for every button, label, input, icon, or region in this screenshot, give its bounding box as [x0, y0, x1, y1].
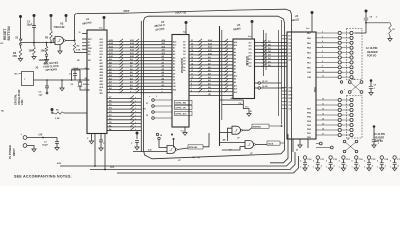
oscillator X3 can box	[22, 72, 34, 86]
capacitor C11 .1 decoupling	[316, 156, 319, 159]
wire companion bus vertical	[140, 21, 142, 152]
header pins CB rows	[316, 143, 319, 145]
svg-text:15: 15	[322, 123, 324, 125]
svg-text:I/O0: I/O0	[249, 66, 252, 68]
svg-text:D2: D2	[173, 80, 175, 82]
svg-text:1: 1	[364, 167, 365, 169]
svg-text:5: 5	[313, 161, 314, 163]
svg-text:Ax: Ax	[183, 66, 185, 69]
wire U7a output to tag	[242, 128, 252, 131]
capacitor at U1 bottom	[100, 134, 102, 141]
header pins port A rows	[316, 32, 338, 34]
power dot VIA Vcc	[311, 11, 314, 14]
VIA left pin stubs lower	[282, 87, 288, 89]
wire battery minus to ground	[27, 146, 34, 150]
wire OE control row	[189, 94, 233, 96]
svg-text:10: 10	[191, 77, 193, 79]
node clock junctions	[46, 79, 48, 81]
svg-text:A14: A14	[173, 40, 176, 43]
svg-text:A8: A8	[234, 78, 236, 81]
svg-text:20: 20	[191, 43, 193, 45]
svg-text:A(0–15): A(0–15)	[192, 156, 200, 159]
svg-text:21: 21	[191, 40, 193, 42]
svg-text:A12: A12	[234, 44, 237, 47]
svg-text:AE: AE	[223, 139, 227, 142]
capacitor C15 .1 decoupling	[367, 156, 370, 159]
svg-text:I/O6: I/O6	[249, 46, 252, 48]
wire SRAM CS line to ground	[222, 104, 244, 106]
svg-text:CAN: CAN	[21, 100, 24, 105]
resistor R2 10K pull-up	[50, 14, 53, 17]
svg-text:A4: A4	[234, 58, 236, 61]
svg-text:100µF: 100µF	[42, 145, 49, 147]
svg-text:17: 17	[191, 53, 193, 55]
svg-text:x: x	[135, 111, 136, 113]
svg-text:BUTTON: BUTTON	[7, 26, 11, 41]
power dot SRAM Vcc	[251, 20, 254, 23]
svg-text:5: 5	[377, 161, 378, 163]
wire U1 xtal1 pin	[87, 68, 90, 70]
svg-text:x: x	[135, 122, 136, 124]
svg-text:9: 9	[191, 80, 192, 82]
svg-text:INPUT: INPUT	[12, 148, 16, 156]
svg-text:Vcc: Vcc	[248, 36, 251, 38]
wire U1 reset pin stub	[82, 42, 87, 44]
svg-text:o: o	[344, 89, 345, 91]
resistor R3 47K	[19, 48, 22, 58]
resistor R1 10K	[33, 43, 35, 47]
svg-text:1: 1	[313, 167, 314, 169]
wire bus A0-A15 rows U1 to EPROM	[107, 41, 172, 43]
svg-text:A10: A10	[234, 88, 237, 91]
svg-text:A13: A13	[162, 42, 165, 45]
wire SRAM A8 line to ground	[220, 99, 244, 101]
svg-text:6: 6	[322, 51, 323, 53]
svg-text:(1) OE: (1) OE	[262, 86, 268, 88]
jumper pads at EPROM control	[152, 99, 155, 102]
wire C8 node to resistor	[366, 22, 390, 24]
svg-text:9: 9	[322, 66, 323, 68]
node junction at D1	[46, 42, 48, 44]
svg-text:x: x	[135, 129, 136, 131]
svg-text:Vcc: Vcc	[306, 28, 309, 30]
svg-text:6: 6	[191, 90, 192, 92]
svg-text:11: 11	[322, 76, 324, 78]
wire bottom bus A0-15	[90, 152, 295, 170]
svg-text:14: 14	[191, 62, 193, 65]
svg-text:FOR I/O: FOR I/O	[367, 55, 376, 58]
svg-text:Ax: Ax	[183, 69, 185, 72]
ground under R1	[32, 57, 36, 60]
svg-text:5: 5	[339, 161, 340, 163]
svg-text:17: 17	[322, 133, 324, 135]
diode D1 1N4148	[46, 43, 48, 47]
svg-text:I/O2: I/O2	[249, 59, 252, 61]
svg-text:D3: D3	[183, 54, 185, 56]
svg-text:13: 13	[191, 67, 193, 69]
wire bottom bus inner	[270, 134, 288, 163]
svg-text:5: 5	[390, 161, 391, 163]
svg-text:74HC132: 74HC132	[54, 25, 66, 29]
power dot top right	[365, 10, 368, 13]
wire battery plus	[27, 137, 57, 139]
svg-text:D4: D4	[183, 50, 185, 53]
svg-text:20MHz: 20MHz	[83, 84, 89, 86]
op-amp U7a nand	[232, 126, 241, 134]
svg-text:AD4: AD4	[100, 71, 104, 74]
svg-text:D1: D1	[183, 61, 185, 63]
capacitor C9 .1	[370, 79, 373, 82]
IC U1 80C320 MCU box	[87, 30, 107, 134]
svg-text:(2) CS: (2) CS	[262, 81, 268, 83]
switch S1 (reset button)	[19, 15, 22, 18]
svg-text:x: x	[135, 101, 136, 103]
svg-text:A1: A1	[162, 81, 164, 84]
svg-text:AD1: AD1	[100, 80, 104, 83]
svg-text:A7: A7	[234, 48, 236, 51]
svg-text:Vss: Vss	[181, 131, 184, 133]
svg-text:1: 1	[326, 167, 327, 169]
net tag CNTRL OE	[175, 105, 193, 109]
net tag CNTRL A14	[175, 111, 193, 115]
svg-text:EPM SEL: EPM SEL	[189, 147, 199, 149]
svg-text:25: 25	[250, 111, 252, 113]
net tag RAMSEL	[252, 124, 269, 128]
svg-text:3: 3	[85, 88, 86, 90]
svg-text:A7: A7	[173, 47, 175, 50]
wire RST top run	[77, 9, 287, 13]
wire pin19 link	[72, 68, 90, 70]
node gate output junction	[74, 40, 76, 42]
svg-text:I/O3: I/O3	[249, 56, 252, 58]
wire port rows U1 lower	[107, 98, 141, 100]
svg-text:OPTIONS: OPTIONS	[45, 67, 57, 72]
svg-text:A15: A15	[100, 38, 103, 41]
svg-text:X1: X1	[88, 42, 90, 44]
svg-text:RST: RST	[124, 9, 130, 13]
svg-text:3.3K: 3.3K	[76, 50, 81, 52]
svg-text:10K: 10K	[41, 50, 46, 53]
svg-text:AD7: AD7	[100, 62, 104, 65]
power dot at U1 Vcc	[103, 16, 106, 19]
svg-text:5: 5	[364, 161, 365, 163]
wire crystal to U1 pin 19	[80, 89, 90, 91]
svg-text:A12: A12	[173, 44, 176, 47]
svg-text:o: o	[149, 96, 150, 98]
svg-text:16(A–X): 16(A–X)	[175, 11, 186, 15]
svg-text:NC: NC	[1, 111, 5, 113]
power dot under box left	[136, 132, 139, 135]
IC U3 EPROM box	[172, 35, 189, 128]
svg-text:U2: U2	[60, 21, 64, 25]
svg-text:A9: A9	[100, 56, 102, 59]
svg-text:1: 1	[377, 167, 378, 169]
ground SRAM Vss corner	[243, 100, 249, 114]
svg-text:10K: 10K	[29, 50, 34, 53]
wire SRAM left bundle verticals	[219, 26, 221, 146]
ground under R3	[18, 59, 22, 62]
jumper pad above U7c	[158, 137, 160, 139]
wire RST corner down to U6 area	[286, 9, 292, 150]
pin stub into U1 xtal2	[84, 79, 87, 81]
svg-text:16: 16	[191, 57, 193, 59]
svg-text:A1: A1	[173, 66, 175, 69]
ground at U1 Vss pin	[91, 134, 93, 142]
wire bus loop 16(A-X) rounded box	[144, 16, 285, 159]
net tag EPM SEL	[188, 145, 203, 149]
node RAMSEL junction	[281, 125, 283, 127]
svg-text:D6: D6	[183, 45, 185, 47]
wire top right to header row1	[355, 32, 367, 34]
svg-text:D5: D5	[183, 48, 185, 50]
svg-text:5: 5	[300, 161, 301, 163]
svg-text:A6: A6	[162, 65, 164, 68]
op-amp U7b nand	[245, 141, 254, 149]
jumper pads crossover	[340, 81, 342, 83]
svg-text:8: 8	[191, 84, 192, 86]
svg-text:AD3: AD3	[100, 74, 104, 77]
svg-text:11: 11	[191, 74, 193, 76]
ground stub mid clock	[61, 80, 63, 88]
svg-text:A(0): A(0)	[110, 165, 115, 168]
svg-text:A3: A3	[162, 74, 164, 77]
resistor R4 3.3K	[73, 42, 76, 51]
ground VIA Vss	[299, 139, 301, 145]
svg-text:I/O7: I/O7	[249, 42, 252, 44]
svg-text:.1µF: .1µF	[38, 95, 43, 97]
svg-text:A13: A13	[100, 44, 103, 47]
wire U7b inputs	[220, 142, 246, 144]
svg-text:13: 13	[322, 113, 324, 115]
wire data bus rows SRAM to VIA	[255, 42, 288, 44]
power dot EPROM Vpp	[185, 21, 188, 24]
svg-text:A5: A5	[173, 53, 175, 56]
svg-text:3V POWER: 3V POWER	[8, 145, 12, 159]
wire U7c output to tag	[177, 148, 188, 150]
svg-text:11: 11	[322, 103, 324, 105]
svg-text:A11: A11	[234, 84, 237, 87]
svg-text:7: 7	[322, 56, 323, 58]
capacitor C3 56pF branch	[72, 70, 81, 80]
capacitor C8 .1	[365, 14, 367, 17]
wire bottom bus A15	[60, 150, 292, 166]
svg-text:5: 5	[326, 161, 327, 163]
svg-text:A3: A3	[234, 61, 236, 64]
svg-text:16: 16	[322, 128, 324, 130]
svg-text:10: 10	[79, 32, 81, 34]
svg-text:A5: A5	[162, 68, 164, 71]
bus hatch marks left bundle	[119, 39, 123, 42]
svg-text:25: 25	[296, 150, 298, 152]
svg-text:19: 19	[191, 47, 193, 49]
svg-text:A1: A1	[234, 68, 236, 71]
svg-text:OE1A: OE1A	[268, 142, 274, 145]
svg-text:RAMSEL: RAMSEL	[253, 126, 262, 129]
dashed header box bottom	[347, 96, 363, 139]
svg-text:AD5: AD5	[100, 68, 104, 71]
svg-text:D0: D0	[173, 73, 175, 75]
svg-text:x: x	[135, 125, 136, 127]
resistor R8	[389, 23, 392, 36]
svg-text:A9: A9	[162, 55, 164, 58]
svg-text:NC: NC	[15, 74, 19, 76]
svg-text:D1: D1	[173, 77, 175, 79]
resistor R6 3.3K to U1	[51, 108, 54, 111]
IC U6 65C22 VIA box	[287, 32, 316, 139]
svg-text:15: 15	[191, 60, 193, 62]
svg-text:CNTRL: WE: CNTRL: WE	[175, 103, 186, 105]
svg-text:A8: A8	[100, 59, 102, 62]
capacitor C13 .1 decoupling	[342, 156, 345, 159]
op-amp U2 74HC132 schmitt nand	[55, 37, 64, 45]
svg-text:A13: A13	[234, 74, 237, 77]
op-amp U7c nand	[167, 146, 176, 154]
wire from gate output up to top RST line	[75, 14, 77, 41]
svg-text:A0: A0	[162, 84, 164, 87]
ground top right	[389, 36, 391, 39]
svg-text:3: 3	[322, 36, 323, 38]
wire X3 output to U1 XTAL	[34, 79, 90, 81]
capacitor C7 100uF	[56, 138, 58, 142]
svg-text:x: x	[135, 108, 136, 110]
svg-text:A15: A15	[234, 91, 237, 94]
svg-text:18: 18	[85, 78, 87, 80]
svg-text:A10: A10	[100, 53, 103, 56]
header pins port B rows	[316, 99, 338, 101]
svg-text:A2: A2	[173, 63, 175, 66]
svg-text:AD0: AD0	[100, 83, 104, 86]
svg-text:D2: D2	[183, 57, 185, 59]
svg-text:4: 4	[322, 40, 323, 43]
svg-text:47K: 47K	[12, 55, 17, 58]
ground under U2 gate	[59, 45, 61, 51]
svg-text:x: x	[135, 97, 136, 99]
wire RST net horizontal	[21, 42, 54, 44]
svg-text:10: 10	[322, 98, 324, 100]
svg-text:12: 12	[191, 70, 193, 72]
svg-text:x: x	[135, 118, 136, 120]
dashed header box top	[347, 29, 363, 80]
svg-text:A12: A12	[100, 47, 103, 50]
svg-text:D0: D0	[183, 64, 185, 66]
svg-text:A3: A3	[173, 60, 175, 63]
svg-text:3.3K: 3.3K	[55, 118, 60, 120]
svg-text:A14: A14	[100, 41, 103, 44]
wire VIA phi2 pins bottom	[292, 139, 294, 152]
wire VIA-left bus verticals	[278, 30, 280, 116]
svg-text:x: x	[135, 115, 136, 117]
svg-text:A11: A11	[100, 50, 103, 53]
svg-text:1: 1	[300, 167, 301, 169]
svg-text:A5: A5	[234, 54, 236, 57]
IC U5 62256 SRAM box	[233, 39, 255, 99]
svg-text:A14: A14	[234, 41, 237, 44]
svg-text:10µF: 10µF	[27, 24, 33, 27]
VIA left pin stubs upper	[282, 35, 288, 37]
svg-text:VIA: VIA	[313, 87, 317, 93]
ground under D1	[44, 60, 48, 63]
svg-text:AD6: AD6	[100, 65, 104, 68]
svg-text:J2: J2	[146, 115, 148, 117]
ground EPROM Vss	[184, 127, 186, 133]
svg-text:5: 5	[322, 46, 323, 48]
bus hatch marks center	[198, 39, 202, 42]
svg-text:CNTRL: OE: CNTRL: OE	[175, 108, 186, 110]
svg-text:A8: A8	[162, 58, 164, 61]
wire bottom bus 3	[117, 156, 299, 173]
net tag OE1A	[267, 141, 280, 145]
capacitor C17 .1 decoupling	[393, 156, 396, 159]
wire U7c inputs	[133, 151, 167, 153]
capacitor C16 .1 decoupling	[380, 156, 383, 159]
svg-text:J1: J1	[146, 103, 148, 105]
svg-text:SEE ACCOMPANYING NOTES.: SEE ACCOMPANYING NOTES.	[14, 175, 72, 179]
svg-text:8: 8	[322, 61, 323, 63]
svg-text:CNTRL: A14: CNTRL: A14	[175, 113, 187, 116]
svg-text:10: 10	[322, 71, 324, 73]
svg-text:A9: A9	[234, 81, 236, 84]
capacitor C1 10uF	[33, 14, 36, 17]
svg-text:A12: A12	[162, 45, 165, 48]
capacitor C18 .1	[373, 125, 376, 128]
svg-text:X2: X2	[88, 45, 90, 47]
svg-text:A11: A11	[162, 49, 165, 52]
svg-text:A0: A0	[173, 69, 175, 72]
jumper pads under EPROM	[156, 133, 158, 135]
svg-text:7: 7	[191, 87, 192, 89]
svg-text:HEADER: HEADER	[367, 51, 378, 54]
wire U7b output to tag	[255, 144, 267, 146]
svg-text:AD2: AD2	[100, 77, 104, 80]
svg-text:x: x	[135, 104, 136, 106]
connector battery pads	[23, 136, 27, 140]
svg-text:1: 1	[339, 167, 340, 169]
svg-text:1: 1	[352, 167, 353, 169]
svg-text:5: 5	[352, 161, 353, 163]
svg-text:I/O1: I/O1	[249, 62, 252, 64]
svg-text:+3V: +3V	[38, 134, 43, 137]
crystal X2 20MHz	[79, 70, 81, 80]
svg-text:A2: A2	[234, 64, 236, 67]
svg-text:A6: A6	[173, 50, 175, 53]
capacitor C12 .1 decoupling	[329, 156, 332, 159]
capacitor C5 .1uF	[46, 80, 48, 86]
capacitor C14 .1 decoupling	[355, 156, 358, 159]
svg-text:A6: A6	[234, 51, 236, 54]
jumper pads crossover bottom	[343, 140, 346, 143]
SRAM right control pins CS2 OE	[255, 82, 259, 84]
svg-text:12: 12	[322, 108, 324, 110]
svg-text:D7: D7	[183, 41, 185, 43]
svg-text:I/O5: I/O5	[249, 49, 252, 51]
node RST junction at C1	[33, 42, 35, 44]
net tag CNTRL WE	[175, 100, 193, 104]
svg-text:12 16-PIN: 12 16-PIN	[366, 47, 377, 50]
svg-text:5: 5	[156, 96, 157, 98]
svg-text:A2: A2	[162, 77, 164, 80]
capacitor C10 .1 decoupling	[303, 156, 306, 159]
svg-text:18: 18	[191, 50, 193, 52]
svg-text:A4: A4	[173, 56, 175, 59]
bus hatch marks right	[262, 40, 266, 43]
svg-text:1: 1	[390, 167, 391, 169]
svg-text:A7: A7	[162, 61, 164, 64]
wire U1 bottom to bus	[94, 134, 96, 167]
wire U7a inputs	[220, 131, 233, 133]
svg-text:J4: J4	[160, 134, 162, 137]
svg-text:A0: A0	[234, 71, 236, 74]
wire bus rows EPROM to SRAM	[189, 41, 233, 43]
